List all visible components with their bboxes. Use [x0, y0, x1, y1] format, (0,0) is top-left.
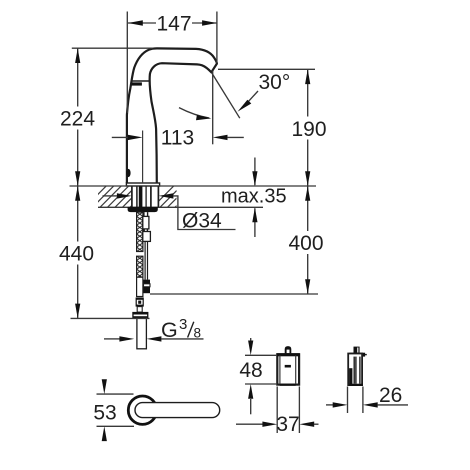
shank dark center band	[139, 186, 143, 207]
dimension 400	[150, 186, 324, 294]
max.35 annotation	[221, 158, 287, 238]
threaded stud lower (after break)	[137, 256, 143, 277]
dimension 190	[218, 69, 327, 186]
hose crimp tube	[143, 212, 145, 216]
dimension 113	[112, 71, 244, 183]
svg-text:224: 224	[60, 108, 95, 131]
hose connector block	[143, 216, 149, 229]
dimension 37	[236, 387, 319, 436]
deck bottom line (extends as max.35 underline)	[98, 206, 263, 208]
svg-text:37: 37	[276, 413, 299, 436]
lever handle	[135, 403, 220, 418]
stud union nut	[136, 298, 144, 307]
svg-text:113: 113	[161, 127, 194, 150]
svg-text:190: 190	[291, 118, 326, 141]
dimension 53	[93, 379, 134, 441]
stud plain section	[137, 277, 143, 296]
svg-text:26: 26	[379, 384, 402, 407]
stud neck	[137, 307, 142, 313]
svg-text:3: 3	[179, 316, 187, 333]
dimension 224	[60, 48, 153, 186]
sensor cable	[144, 241, 146, 279]
dimension 147	[127, 12, 217, 114]
svg-text:8: 8	[194, 326, 202, 341]
base flange	[126, 183, 159, 186]
hose lower block	[143, 232, 151, 242]
svg-text:max.35: max.35	[221, 186, 287, 208]
deck hatching	[85, 186, 196, 207]
svg-text:53: 53	[93, 402, 116, 425]
G 3/8 annotation	[104, 316, 204, 342]
cable end connector	[144, 280, 151, 284]
sensor window dark mark	[132, 82, 142, 85]
diameter 34 annotation	[103, 193, 236, 232]
dimension 26	[326, 384, 408, 413]
shank lines	[136, 186, 138, 207]
svg-text:440: 440	[59, 243, 94, 266]
svg-text:30°: 30°	[259, 71, 291, 94]
svg-text:48: 48	[239, 359, 262, 382]
svg-text:147: 147	[156, 13, 191, 36]
lever escutcheon circle	[128, 396, 156, 424]
deck top line	[70, 185, 317, 187]
svg-text:G: G	[161, 318, 178, 342]
spout seam line	[132, 80, 150, 82]
control box side view	[348, 347, 367, 386]
side set-screw dark mark	[126, 169, 130, 177]
faucet spout outline	[127, 48, 217, 183]
svg-text:Ø34: Ø34	[182, 210, 222, 233]
threaded stud upper	[137, 212, 143, 251]
svg-text:400: 400	[288, 232, 323, 255]
G3/8 hose nut	[132, 312, 148, 318]
dimension 440	[59, 186, 150, 318]
control box front view	[277, 346, 300, 386]
30 degree annotation	[179, 71, 290, 120]
dimension 48	[239, 338, 276, 414]
G3/8 threaded pipe	[137, 318, 147, 349]
mounting washer nut	[128, 207, 158, 212]
mounting hole edges	[131, 186, 133, 207]
